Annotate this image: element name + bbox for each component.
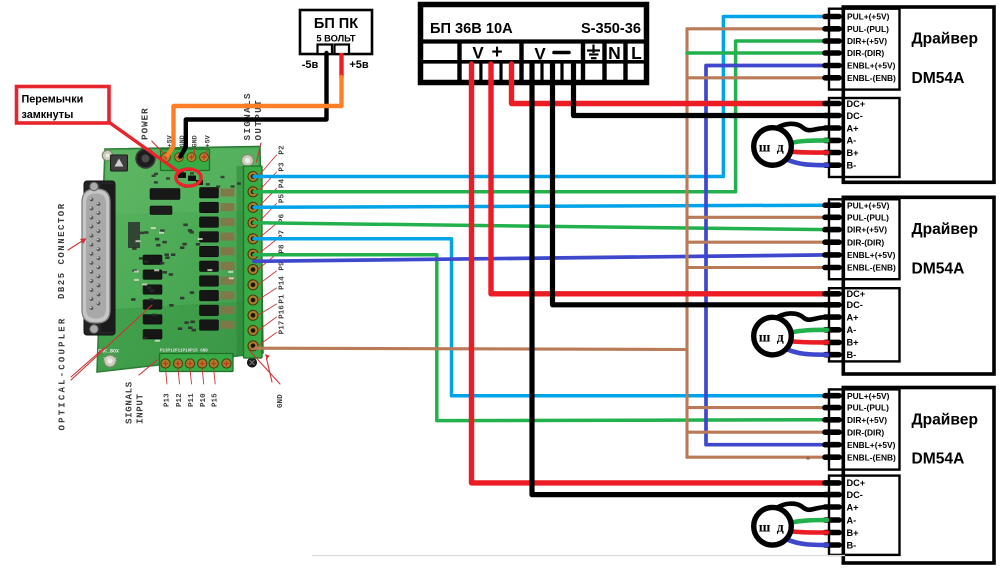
driver U1 pin DC+ <box>825 99 865 109</box>
wire V+ to driver 3 DC+ (red) <box>472 64 828 483</box>
silkscreen text <box>98 349 208 363</box>
left IC column <box>143 255 162 339</box>
annotation leader line <box>108 122 180 173</box>
wire brown common bus vertical <box>685 29 688 457</box>
svg-text:POWER: POWER <box>140 107 151 140</box>
annotation callout box: jumpers closed <box>17 87 110 124</box>
svg-text:GND: GND <box>192 135 200 147</box>
svg-text:DC-: DC- <box>847 111 863 121</box>
wire DIR X axis (green) <box>254 41 827 192</box>
breakout board PCB (photo) <box>82 147 263 373</box>
svg-text:V: V <box>534 45 546 64</box>
wire V+ to driver 1 DC+ (red) <box>512 64 828 104</box>
svg-text:DM54A: DM54A <box>912 451 965 468</box>
svg-text:ENBL-(ENB): ENBL-(ENB) <box>847 73 896 83</box>
svg-text:L: L <box>631 43 642 63</box>
svg-text:DIR+(+5V): DIR+(+5V) <box>847 415 887 425</box>
svg-text:P13: P13 <box>164 393 172 407</box>
svg-text:ENBL-(ENB): ENBL-(ENB) <box>847 452 896 462</box>
driver U1 pin PUL-(PUL) <box>825 24 889 34</box>
pin labels P2..P17 <box>279 145 287 334</box>
svg-text:ENBL-(ENB): ENBL-(ENB) <box>847 263 896 273</box>
svg-text:DIR-(DIR): DIR-(DIR) <box>847 427 884 437</box>
svg-text:PUL+(+5V): PUL+(+5V) <box>847 200 890 210</box>
svg-text:B+: B+ <box>847 148 859 158</box>
svg-text:P1: P1 <box>279 294 287 304</box>
driver U2 pin PUL-(PUL) <box>825 212 889 222</box>
optocoupler IC column <box>200 188 235 331</box>
wire GND board to brown bus <box>255 348 687 349</box>
svg-text:P13P12P11P10P15 GND: P13P12P11P10P15 GND <box>160 350 208 354</box>
wire DIR Z axis (green) <box>254 255 827 421</box>
svg-text:-5в: -5в <box>302 59 319 71</box>
svg-text:DC+: DC+ <box>847 478 866 488</box>
driver U1 pin ENBL-(ENB) <box>825 73 896 83</box>
svg-text:DM54A: DM54A <box>912 70 965 87</box>
svg-text:B+: B+ <box>847 338 859 348</box>
svg-text:БП 36В 10А: БП 36В 10А <box>430 21 513 37</box>
svg-text:PUL+(+5V): PUL+(+5V) <box>847 391 890 401</box>
driver U2 pin DIR-(DIR) <box>825 237 884 247</box>
svg-text:Драйвер: Драйвер <box>912 411 978 428</box>
SMD passives <box>131 170 241 339</box>
svg-text:БП ПК: БП ПК <box>314 16 358 32</box>
svg-text:B-: B- <box>847 350 857 360</box>
wire PUL Y axis (cyan) <box>254 205 827 207</box>
svg-text:ш д: ш д <box>759 140 786 155</box>
stepper motor M3 (ШД) <box>754 507 792 545</box>
driver U3 pin B+ <box>825 528 859 538</box>
wire PUL Z axis (cyan) <box>254 239 827 396</box>
svg-text:75R_1: 75R_1 <box>103 357 117 363</box>
svg-text:DC+: DC+ <box>847 99 866 109</box>
label SIGNALS INPUT <box>124 381 146 424</box>
svg-text:V: V <box>472 44 484 63</box>
wire V- to driver 2 DC- (black) <box>553 64 828 305</box>
driver U3 power terminal block <box>829 476 900 555</box>
regulator component <box>111 155 128 171</box>
driver U3 pin A+ <box>825 502 859 512</box>
svg-text:P4: P4 <box>279 179 287 189</box>
svg-text:Драйвер: Драйвер <box>912 221 978 238</box>
driver U2 pin B- <box>825 350 856 360</box>
wire PUL X axis (cyan) <box>254 17 827 177</box>
svg-text:A+: A+ <box>847 502 859 512</box>
svg-text:A-: A- <box>847 325 857 335</box>
driver U1 pin B+ <box>825 148 859 158</box>
svg-text:P2: P2 <box>279 145 287 155</box>
driver U1 pin ENBL+(+5V) <box>825 61 896 71</box>
svg-text:Драйвер: Драйвер <box>912 31 978 48</box>
svg-text:PUL-(PUL): PUL-(PUL) <box>847 24 889 34</box>
svg-text:OPTICAL-COUPLER: OPTICAL-COUPLER <box>58 316 68 430</box>
wire +5в red stub <box>339 53 343 78</box>
svg-text:ENBL+(+5V): ENBL+(+5V) <box>847 61 896 71</box>
driver U2 signal terminal block <box>829 199 900 279</box>
svg-text:P15: P15 <box>212 393 220 407</box>
svg-text:P17: P17 <box>279 320 287 334</box>
wire V+ to driver 2 DC+ (red) <box>491 64 827 294</box>
driver U1 signal terminal block <box>829 9 900 90</box>
wire DIR- driver 1 (green) <box>687 51 827 55</box>
svg-text:INPUT: INPUT <box>135 393 146 424</box>
driver U3 pin DC+ <box>825 478 865 488</box>
driver U1 pin B- <box>825 161 856 171</box>
stepper motor M2 wires <box>775 313 828 354</box>
stepper motor M3 wires <box>775 504 828 545</box>
svg-text:P14: P14 <box>279 276 287 290</box>
leader GND with arrow <box>249 350 280 384</box>
driver U2 pin DC+ <box>825 289 865 299</box>
leader line POWER <box>152 141 163 153</box>
svg-text:P3: P3 <box>279 162 287 172</box>
svg-text:B-: B- <box>847 540 857 550</box>
leader ticks power pins <box>169 149 208 156</box>
svg-text:P8: P8 <box>279 244 287 254</box>
driver U1 power terminal block <box>829 98 900 177</box>
svg-text:+5V: +5V <box>205 134 213 147</box>
driver U2 pin PUL+(+5V) <box>825 200 890 210</box>
leader DB25 arrow <box>68 238 87 250</box>
driver U3 pin B- <box>825 540 856 550</box>
svg-text:DM54A: DM54A <box>912 261 965 278</box>
driver U1 pin A+ <box>825 123 859 133</box>
leaders OPTICAL-COUPLER <box>71 305 152 380</box>
wire -5в black to board GND <box>181 53 327 157</box>
svg-text:DIR-(DIR): DIR-(DIR) <box>847 237 884 247</box>
driver U1 pin DIR-(DIR) <box>825 48 884 58</box>
driver U3 pin DIR-(DIR) <box>825 427 884 437</box>
driver U3 pin A- <box>825 515 856 525</box>
stepper motor M1 wires <box>775 124 828 165</box>
label SIGNALS OUTPUT <box>242 92 264 140</box>
svg-text:DIR+(+5V): DIR+(+5V) <box>847 225 887 235</box>
wire ENBL bus (blue) board to driver 2 <box>254 255 827 261</box>
faint photo edge artifact <box>312 555 845 557</box>
svg-text:SIGNALS: SIGNALS <box>242 92 253 140</box>
driver U2 pin ENBL-(ENB) <box>825 263 896 273</box>
driver U3 pin ENBL+(+5V) <box>825 440 896 450</box>
electrolytic capacitor C1 <box>136 149 155 168</box>
svg-text:B-: B- <box>847 161 857 171</box>
svg-text:+: + <box>491 42 502 63</box>
stepper motor M1 (ШД) <box>754 128 792 166</box>
svg-text:ш д: ш д <box>759 329 786 344</box>
driver U2 pin B+ <box>825 338 859 348</box>
svg-text:+5в: +5в <box>349 59 369 71</box>
svg-text:PUL+(+5V): PUL+(+5V) <box>847 12 890 22</box>
svg-text:A-: A- <box>847 136 857 146</box>
svg-text:DIR-(DIR): DIR-(DIR) <box>847 48 884 58</box>
driver U3 signal terminal block <box>829 389 900 469</box>
svg-text:SIGNALS: SIGNALS <box>124 381 135 424</box>
leader SIGNALS INPUT <box>139 360 157 375</box>
driver U2 pin ENBL+(+5V) <box>825 250 896 260</box>
svg-text:ш д: ш д <box>759 519 786 534</box>
svg-text:N: N <box>608 43 621 63</box>
driver U1 pin PUL+(+5V) <box>825 12 890 22</box>
svg-text:A+: A+ <box>847 312 859 322</box>
driver U3 pin DIR+(+5V) <box>825 415 887 425</box>
driver U1 pin DC- <box>825 111 863 121</box>
jumper block JP1 (closed jumpers) <box>178 173 203 186</box>
svg-text:PUL-(PUL): PUL-(PUL) <box>847 403 889 413</box>
svg-text:P11: P11 <box>188 393 196 407</box>
svg-text:A+: A+ <box>847 123 859 133</box>
PC power supply БП ПК <box>300 10 372 54</box>
wire brown branches to driver terminals <box>687 29 827 457</box>
svg-text:PUL-(PUL): PUL-(PUL) <box>847 212 889 222</box>
svg-text:S-350-36: S-350-36 <box>581 21 641 37</box>
leader SIGNALS OUTPUT <box>257 143 262 162</box>
svg-text:DC+: DC+ <box>847 289 866 299</box>
stray brown mark <box>806 456 810 460</box>
svg-text:ENBL+(+5V): ENBL+(+5V) <box>847 250 896 260</box>
output terminal block (right) <box>244 166 263 358</box>
driver U3 pin DC- <box>825 490 863 500</box>
wire V- to driver 3 DC- (black) <box>532 64 827 495</box>
driver U3 pin PUL+(+5V) <box>825 391 890 401</box>
wire V- to driver 1 DC- (black) <box>574 64 828 116</box>
svg-text:DIR+(+5V): DIR+(+5V) <box>847 36 887 46</box>
power supply БП 36В 10А S-350-36 <box>418 5 648 83</box>
svg-text:DC-: DC- <box>847 490 863 500</box>
driver U3 pin ENBL-(ENB) <box>825 452 896 462</box>
earth ground symbol <box>587 45 600 59</box>
leader lines input pins <box>166 369 216 384</box>
svg-text:B+: B+ <box>847 528 859 538</box>
annotation ellipse around jumpers <box>176 169 201 186</box>
svg-text:P12: P12 <box>176 393 184 407</box>
driver U1 pin A- <box>825 136 856 146</box>
driver U3 outline DM54A <box>843 388 994 564</box>
svg-text:5 ВОЛЬТ: 5 ВОЛЬТ <box>316 34 356 44</box>
driver U2 pin DC- <box>825 300 863 310</box>
svg-text:P10: P10 <box>200 393 208 407</box>
wire +5в orange to board +5V <box>168 77 342 156</box>
DB25 connector J1 <box>82 181 115 335</box>
wire DIR Y axis (green) <box>254 223 827 230</box>
logic ICs <box>128 189 180 249</box>
driver U2 power terminal block <box>829 288 900 361</box>
driver U1 outline DM54A <box>843 7 994 182</box>
leader lines output pins <box>258 155 277 346</box>
svg-text:P5: P5 <box>279 194 287 204</box>
svg-text:ENBL+(+5V): ENBL+(+5V) <box>847 440 896 450</box>
pin labels P13 P12 P11 P10 P15 <box>164 393 220 407</box>
svg-text:GND: GND <box>277 394 285 408</box>
wire ENBL branch (blue) drivers 1 and 3 <box>706 66 827 445</box>
driver U2 outline DM54A <box>843 197 994 374</box>
svg-text:P16: P16 <box>279 305 287 319</box>
stepper motor M2 (ШД) <box>754 317 792 355</box>
driver U1 pin DIR+(+5V) <box>825 36 887 46</box>
svg-text:замкнуты: замкнуты <box>22 109 74 121</box>
labels +5V GND GND +5V <box>167 134 213 147</box>
driver U2 pin A- <box>825 325 856 335</box>
svg-text:Перемычки: Перемычки <box>22 94 84 106</box>
svg-text:DC-: DC- <box>847 300 863 310</box>
driver U2 pin DIR+(+5V) <box>825 225 887 235</box>
power terminal block (top) <box>161 149 210 171</box>
driver U2 pin A+ <box>825 312 859 322</box>
input terminal block (bottom) <box>160 354 234 372</box>
svg-text:DB25 CONNECTOR: DB25 CONNECTOR <box>57 202 67 299</box>
driver U3 pin PUL-(PUL) <box>825 403 889 413</box>
svg-text:A-: A- <box>847 515 857 525</box>
